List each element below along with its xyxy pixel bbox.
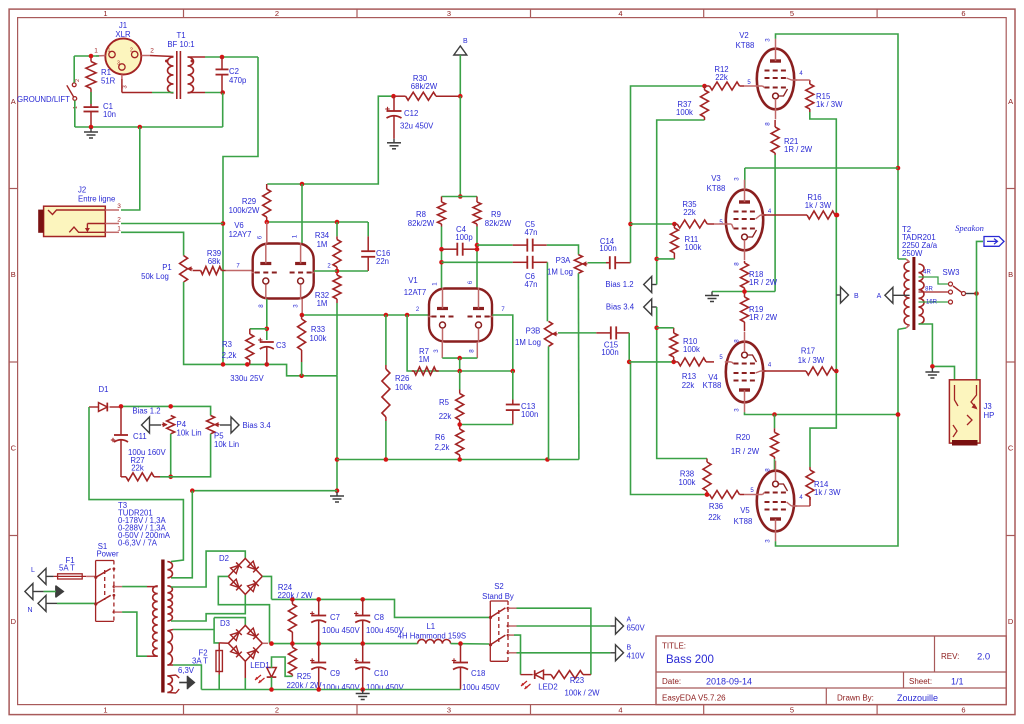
wire V6 cathode to C3	[265, 299, 270, 340]
svg-text:8: 8	[734, 339, 741, 343]
svg-text:R3: R3	[222, 340, 232, 349]
ground cathode rail	[705, 292, 719, 302]
resistor R9	[473, 197, 481, 227]
svg-text:GROUND/LIFT: GROUND/LIFT	[17, 95, 70, 104]
wire R33 bottom	[301, 362, 303, 376]
label T2 TADR201 2250 Za/a 250W	[902, 225, 938, 258]
resistor R8	[438, 197, 446, 227]
svg-text:B: B	[627, 645, 632, 652]
label 16R	[926, 300, 938, 306]
svg-text:100p: 100p	[455, 233, 473, 242]
svg-text:HP: HP	[984, 411, 995, 420]
svg-text:R13: R13	[682, 372, 696, 381]
wire C5 feed	[477, 244, 513, 246]
svg-text:3: 3	[117, 203, 121, 210]
label C2 470p	[229, 67, 247, 85]
wire T2 tap 16R	[919, 301, 949, 303]
net flag B screen rail	[836, 287, 848, 303]
svg-text:2: 2	[117, 217, 121, 224]
wire D1 anode to winding	[89, 407, 183, 562]
label LED1	[250, 661, 270, 670]
svg-text:6,3V: 6,3V	[178, 666, 195, 675]
label P5 10k Lin	[214, 432, 239, 450]
svg-text:22k: 22k	[131, 464, 144, 473]
svg-text:1: 1	[94, 48, 98, 55]
ground main	[330, 492, 344, 502]
wire R15 to screen rail	[810, 112, 839, 467]
label Bias 3.4 upper	[606, 303, 635, 312]
label R11 100k	[685, 235, 702, 252]
svg-text:8: 8	[765, 122, 772, 126]
inductor L1	[418, 639, 451, 643]
label D1	[99, 385, 109, 394]
label C14 100n	[599, 237, 616, 253]
svg-text:5: 5	[790, 9, 794, 18]
pin numbers V5	[750, 468, 803, 543]
switch S1	[94, 561, 122, 622]
wire R10 top to bias	[657, 327, 674, 329]
wire S1 to T3 primary bottom	[122, 612, 158, 656]
svg-text:100u 450V: 100u 450V	[322, 626, 361, 635]
svg-text:R8: R8	[416, 210, 426, 219]
capacitor C12	[385, 96, 401, 139]
svg-text:82k/2W: 82k/2W	[408, 219, 435, 228]
svg-text:22k: 22k	[708, 513, 721, 522]
svg-text:J2: J2	[78, 186, 86, 195]
svg-text:V3: V3	[711, 174, 721, 183]
svg-text:100k: 100k	[676, 108, 693, 117]
svg-text:P3B: P3B	[526, 327, 541, 336]
label R7 1M	[419, 347, 430, 364]
wire R25 to LED1	[272, 657, 293, 676]
wire V5 plate to OT	[776, 329, 901, 546]
resistor R29	[263, 184, 271, 222]
svg-text:Sheet:: Sheet:	[909, 677, 932, 686]
svg-text:100k/2W: 100k/2W	[229, 206, 260, 215]
label R12 22k	[714, 65, 728, 82]
net flag Bias 3.4 source	[220, 417, 239, 433]
svg-text:R5: R5	[439, 398, 450, 407]
label R33 100k	[310, 325, 327, 343]
label R10 100k	[683, 337, 700, 354]
wire V6 pin6 lead	[266, 222, 268, 244]
label R19 1R / 2W	[749, 305, 778, 322]
resistor R12	[705, 82, 745, 90]
svg-text:P1: P1	[162, 263, 172, 272]
svg-text:Entre ligne: Entre ligne	[78, 195, 115, 204]
label T1 BF 10:1	[167, 31, 194, 49]
label L	[31, 567, 35, 574]
junction R16 screen rail	[835, 213, 840, 218]
svg-text:1k / 3W: 1k / 3W	[805, 201, 832, 210]
resistor R14	[806, 467, 814, 500]
label B 410V	[627, 645, 646, 661]
wire bottom bus	[201, 687, 460, 692]
svg-text:C8: C8	[374, 613, 384, 622]
tube V2 KT88	[756, 39, 797, 120]
wire XLR pin2 to T1 primary top	[150, 56, 174, 57]
label C15 100n	[601, 341, 618, 358]
potentiometer P5	[207, 416, 220, 434]
wire D3 bottom corner to bus	[244, 661, 246, 689]
ground bottom bus	[356, 690, 370, 700]
svg-text:V6: V6	[234, 221, 244, 230]
wire B to R8 R9	[458, 96, 463, 199]
svg-text:2: 2	[150, 48, 154, 55]
fuse F2	[216, 643, 222, 675]
label R16 1k / 3W	[805, 193, 832, 210]
wire R1 to C1	[90, 92, 92, 104]
resistor R30	[394, 92, 461, 100]
resistor R7	[412, 367, 439, 375]
label N	[27, 607, 32, 614]
label P4 10k Lin	[177, 420, 202, 438]
wire C5 to P3A	[547, 245, 579, 255]
net flag B top	[454, 38, 468, 55]
wire LED2 to R23	[521, 674, 533, 676]
svg-text:1k / 3W: 1k / 3W	[816, 100, 843, 109]
net flag N	[38, 595, 57, 611]
wire J2 pin1 to P1	[121, 232, 184, 255]
LED LED1	[255, 668, 276, 684]
svg-text:XLR: XLR	[115, 30, 131, 39]
label A 650V	[627, 617, 646, 633]
label SW3	[943, 268, 960, 277]
label C16 22n	[376, 249, 390, 266]
svg-text:5A T: 5A T	[59, 564, 75, 573]
svg-text:P3A: P3A	[556, 256, 572, 265]
label R37 100k	[676, 100, 693, 117]
wire N to S1	[57, 602, 96, 604]
resistor R25	[288, 644, 296, 677]
svg-text:5: 5	[790, 706, 794, 715]
svg-text:1: 1	[117, 226, 121, 233]
label C1 10n	[103, 102, 116, 119]
wire R11 bottom to bias	[657, 258, 675, 260]
wire P3B wiper to C15	[558, 332, 596, 334]
wire w3 bottom to bus	[167, 665, 201, 690]
label P3B 1M Log	[515, 327, 541, 348]
svg-text:R29: R29	[242, 197, 256, 206]
svg-text:250W: 250W	[902, 249, 923, 258]
pin numbers V4	[719, 339, 772, 412]
svg-text:100u 450V: 100u 450V	[366, 683, 405, 692]
label R29 100k/2W	[229, 197, 260, 215]
wire C13 bottom to R5 R6	[457, 422, 512, 427]
wire V6 pin1 riser	[301, 184, 303, 243]
resistor R3	[246, 329, 254, 365]
label V6 12AY7	[229, 221, 252, 239]
net flag Bias 1.2 source	[142, 417, 162, 433]
wire T1 secondary top to C2	[188, 55, 259, 60]
svg-text:KT88: KT88	[707, 184, 726, 193]
resistor R37	[701, 86, 709, 120]
label R14 1k / 3W	[814, 480, 841, 497]
label R9 82k/2W	[485, 210, 512, 228]
svg-text:100k: 100k	[395, 383, 412, 392]
fuse F1	[54, 574, 87, 579]
capacitor C9	[310, 644, 326, 690]
svg-text:TITLE:: TITLE:	[662, 642, 686, 651]
svg-text:SW3: SW3	[943, 268, 960, 277]
svg-text:C18: C18	[471, 669, 485, 678]
svg-text:100u 450V: 100u 450V	[462, 683, 501, 692]
resistor R17	[764, 367, 838, 375]
tube V1 12AT7	[428, 288, 493, 343]
svg-text:100n: 100n	[599, 244, 616, 253]
wire D2 plus to HT bus	[262, 576, 271, 599]
svg-text:650V: 650V	[627, 624, 646, 633]
svg-text:22k: 22k	[683, 208, 696, 217]
resistor R21	[771, 120, 779, 155]
net flag Bias 3.4 upper	[644, 299, 657, 315]
svg-text:1: 1	[108, 48, 111, 54]
label R30 68k/2W	[411, 74, 438, 91]
svg-text:R6: R6	[435, 433, 445, 442]
svg-text:R25: R25	[297, 672, 312, 681]
label C11 100u 160V	[128, 432, 167, 457]
svg-text:3: 3	[734, 408, 741, 412]
svg-text:330u 25V: 330u 25V	[230, 374, 264, 383]
wire T1 secondary to J2 NC	[221, 57, 258, 364]
svg-text:22k: 22k	[715, 73, 728, 82]
svg-text:0-6,3V / 7A: 0-6,3V / 7A	[118, 539, 158, 548]
svg-text:10n: 10n	[103, 110, 116, 119]
svg-text:Bias 3.4: Bias 3.4	[606, 303, 635, 312]
pin numbers V2	[747, 38, 803, 126]
net flag PE	[25, 584, 33, 600]
capacitor C1	[84, 104, 99, 127]
wire F1 to S1	[86, 575, 95, 577]
svg-text:47n: 47n	[524, 228, 537, 237]
svg-text:Date:: Date:	[662, 677, 681, 686]
svg-text:R34: R34	[315, 231, 330, 240]
transformer T3	[153, 560, 173, 693]
label R32 1M	[315, 291, 329, 308]
capacitor C13	[506, 371, 520, 425]
label A plate supply	[877, 293, 882, 300]
svg-text:3: 3	[734, 177, 741, 181]
svg-text:4: 4	[618, 9, 622, 18]
wire T2 tap 4R	[919, 277, 949, 284]
svg-text:1: 1	[432, 282, 439, 286]
capacitor C11	[111, 407, 128, 477]
label R17 1k / 3W	[798, 347, 825, 366]
title block	[656, 636, 1006, 705]
label R27 22k	[130, 456, 144, 473]
wire output node to J3	[976, 294, 978, 386]
resistor R39	[193, 267, 226, 275]
label R23 100k / 2W	[564, 676, 600, 698]
svg-text:1M Log: 1M Log	[515, 338, 541, 347]
svg-text:1: 1	[103, 9, 107, 18]
svg-text:3A T: 3A T	[192, 657, 208, 666]
svg-text:T1: T1	[176, 31, 185, 40]
label R6 2,2k	[435, 433, 450, 452]
svg-text:1: 1	[103, 706, 107, 715]
wire V3 plate riser	[744, 168, 746, 188]
capacitor C3	[258, 338, 274, 365]
svg-text:A: A	[11, 97, 16, 106]
svg-text:S2: S2	[494, 582, 504, 591]
wire T1 secondary bottom to C2	[188, 90, 226, 95]
resistor R10	[670, 328, 678, 362]
net flag Bias 1.2 upper	[644, 277, 657, 293]
svg-text:KT88: KT88	[736, 41, 755, 50]
svg-text:2.0: 2.0	[977, 652, 990, 663]
svg-text:100k: 100k	[683, 345, 700, 354]
svg-text:C: C	[11, 444, 17, 453]
label C8 100u 450V	[366, 613, 405, 635]
potentiometer P4	[162, 416, 175, 434]
label V2 KT88	[736, 31, 755, 50]
label R13 22k	[682, 372, 696, 390]
wire R12 to V2 grid	[744, 85, 757, 87]
label R15 1k / 3W	[816, 92, 843, 109]
svg-text:C2: C2	[229, 67, 239, 76]
potentiometer P3B	[545, 321, 558, 346]
wire R20 to V5 cathode	[774, 459, 776, 470]
pin number V6 pin7	[236, 264, 240, 270]
capacitor C4	[442, 243, 480, 256]
svg-text:2: 2	[75, 79, 81, 82]
label R5 22k	[439, 398, 452, 421]
wire LED1 to bottom bus	[271, 677, 273, 690]
label V1 12AT7	[404, 276, 426, 297]
label C18 100u 450V	[462, 669, 501, 692]
wire D1 cathode node	[119, 404, 211, 415]
label V4 KT88	[703, 373, 722, 390]
wire V4 plate rail	[745, 412, 901, 417]
resistor R38	[703, 459, 711, 495]
svg-text:Power: Power	[96, 550, 119, 559]
wire P4 bottom	[168, 434, 173, 479]
label C3 330u 25V	[230, 374, 264, 383]
svg-text:3: 3	[447, 706, 451, 715]
svg-text:1k / 3W: 1k / 3W	[814, 488, 841, 497]
label R35 22k	[682, 200, 697, 217]
wire cathode ground rail	[712, 289, 775, 294]
svg-text:C7: C7	[330, 613, 340, 622]
svg-text:A: A	[1008, 97, 1013, 106]
label J2 Entre ligne	[78, 186, 115, 204]
connector J3 HP	[949, 380, 980, 446]
resistor R5	[456, 371, 464, 425]
wire XLR pin1 to R1 and lift switch	[74, 54, 99, 59]
label B screen rail	[854, 293, 859, 300]
svg-text:N: N	[27, 607, 32, 614]
wire L1 to S2	[451, 641, 489, 646]
svg-text:REV:: REV:	[941, 652, 959, 661]
svg-text:22n: 22n	[376, 257, 389, 266]
wire S2 pole2 contact to LED2	[508, 635, 521, 675]
wire mid bus	[269, 641, 417, 646]
svg-text:BF 10:1: BF 10:1	[167, 40, 194, 49]
net port Speakon	[984, 237, 1004, 247]
wire V6 grid right	[314, 270, 337, 272]
svg-text:L1: L1	[426, 622, 435, 631]
wire XLR pin3 to T1 primary bottom	[122, 79, 174, 93]
resistor R34	[333, 222, 341, 271]
svg-text:1: 1	[292, 234, 299, 238]
tube V3 KT88	[725, 180, 766, 261]
svg-text:3: 3	[765, 38, 772, 42]
wire F2 to bottom bus	[218, 675, 220, 690]
wire R8 bottom to V1 pin1	[439, 227, 444, 289]
svg-text:1: 1	[73, 106, 79, 109]
pin numbers V3	[719, 177, 772, 266]
transformer T2	[904, 257, 924, 330]
svg-text:4R: 4R	[923, 270, 931, 276]
svg-text:2: 2	[275, 706, 279, 715]
svg-text:2: 2	[275, 9, 279, 18]
label V5 KT88	[734, 506, 753, 526]
wire S1 to T3 primary top	[122, 586, 158, 588]
label R1 51R	[101, 68, 116, 86]
wire heater leads	[167, 675, 179, 693]
label F1 5A T	[59, 556, 75, 573]
svg-text:68k/2W: 68k/2W	[411, 82, 438, 91]
svg-text:100k: 100k	[679, 478, 696, 487]
wire V2 plate to OT	[776, 34, 901, 259]
svg-text:R36: R36	[709, 502, 723, 511]
wire C2 riser to ground bus	[222, 93, 224, 127]
wire R8 R9 split	[442, 196, 478, 198]
svg-text:82k/2W: 82k/2W	[485, 219, 512, 228]
svg-text:1M: 1M	[317, 299, 328, 308]
svg-text:B: B	[463, 38, 468, 45]
svg-text:L: L	[31, 567, 35, 574]
wire R36 to V5 grid	[744, 494, 757, 496]
wire T2 tap 8R	[919, 291, 949, 293]
svg-text:100u 450V: 100u 450V	[322, 683, 361, 692]
svg-text:Zouzouille: Zouzouille	[897, 693, 938, 703]
svg-text:R33: R33	[311, 325, 325, 334]
resistor R15	[806, 80, 814, 112]
label R3 2,2k	[222, 340, 237, 360]
svg-text:V1: V1	[408, 276, 418, 285]
wire C15 to drive rail lower	[627, 333, 709, 497]
svg-text:2018-09-14: 2018-09-14	[706, 677, 752, 687]
svg-text:1R / 2W: 1R / 2W	[784, 145, 813, 154]
bridge D3	[228, 625, 262, 661]
svg-text:8: 8	[469, 349, 476, 353]
wire R14 to V5 screen	[795, 497, 811, 506]
label C5 47n	[524, 220, 537, 237]
svg-text:3: 3	[117, 61, 120, 67]
label S2 Stand By	[482, 582, 514, 601]
svg-text:C9: C9	[330, 669, 340, 678]
wire D3 plus to mid bus	[219, 642, 268, 644]
svg-text:Bias 1.2: Bias 1.2	[132, 407, 160, 416]
svg-text:1R / 2W: 1R / 2W	[749, 313, 778, 322]
net flag 6.3V	[179, 676, 195, 689]
label C7 100u 450V	[322, 613, 361, 635]
svg-text:100k: 100k	[685, 243, 702, 252]
earth PE	[33, 586, 65, 598]
svg-text:1/1: 1/1	[951, 677, 964, 687]
potentiometer P3A	[574, 255, 587, 274]
svg-text:2: 2	[130, 48, 133, 54]
svg-text:1R / 2W: 1R / 2W	[731, 447, 760, 456]
svg-text:10k Lin: 10k Lin	[177, 429, 202, 438]
label R38 100k	[679, 470, 696, 488]
wire B output	[508, 652, 616, 654]
wire bias winding riser	[171, 491, 192, 578]
capacitor C5	[513, 239, 547, 252]
wire R21 to ground rail	[774, 155, 776, 292]
wire R32 bottom	[336, 303, 338, 376]
